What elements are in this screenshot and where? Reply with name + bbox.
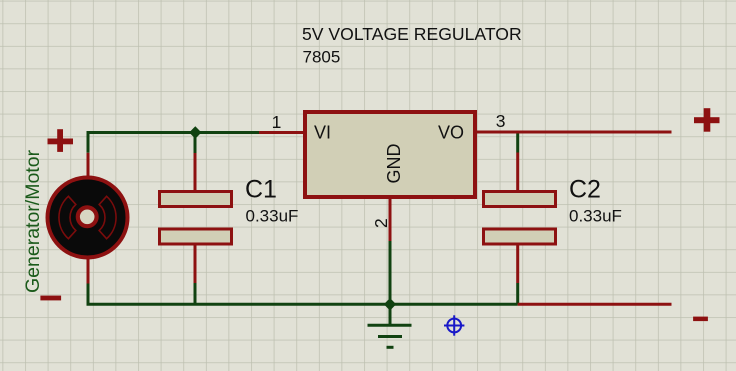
terminal - right: [693, 317, 708, 322]
capacitor C1 bottom pin red: [194, 245, 197, 283]
capacitor C1: [160, 192, 232, 245]
terminal + left: [48, 129, 74, 152]
op-amp U1 regulator 7805 box: [305, 112, 475, 197]
wire pin2 green segment: [389, 241, 392, 304]
junction dot top rail: [189, 126, 201, 139]
pin 3 red wire to + terminal: [477, 131, 672, 134]
svg-text:C1: C1: [245, 176, 277, 204]
motor top pin red: [87, 153, 90, 177]
wire bottom rail green (ground net): [88, 283, 518, 304]
red wire bottom right to - terminal: [518, 303, 672, 306]
wire C1 bottom green segment: [194, 283, 197, 304]
capacitor C1 top pin red: [194, 153, 197, 191]
motor M1 generator symbol: [48, 178, 128, 258]
wire top rail green (node VI net): [88, 133, 259, 153]
capacitor C2 top pin red: [516, 153, 519, 192]
pin 1 red stub: [259, 131, 303, 134]
origin marker crosshair: [444, 315, 464, 335]
terminal - left: [40, 296, 61, 301]
wire C2 top green segment: [516, 132, 519, 153]
ground symbol: [368, 304, 412, 347]
svg-text:1: 1: [272, 112, 282, 132]
svg-text:VO: VO: [438, 123, 464, 143]
capacitor C2: [484, 192, 556, 245]
svg-text:0.33uF: 0.33uF: [246, 207, 299, 226]
svg-text:GND: GND: [384, 144, 404, 184]
svg-text:5V VOLTAGE REGULATOR: 5V VOLTAGE REGULATOR: [302, 24, 522, 44]
wire C1 top green segment: [194, 133, 197, 154]
svg-text:2: 2: [371, 218, 391, 228]
junction dot bottom rail: [384, 298, 396, 311]
pin 2 red stub: [389, 199, 392, 241]
terminal + right: [694, 108, 720, 132]
wire C2 bottom green segment: [516, 283, 519, 304]
svg-text:0.33uF: 0.33uF: [569, 207, 622, 226]
svg-text:3: 3: [496, 111, 506, 131]
svg-text:VI: VI: [314, 123, 331, 143]
svg-text:Generator/Motor: Generator/Motor: [22, 149, 44, 293]
svg-text:7805: 7805: [303, 48, 341, 67]
motor bottom pin red: [87, 259, 90, 284]
svg-text:C2: C2: [569, 176, 601, 204]
capacitor C2 bottom pin red: [516, 245, 519, 283]
